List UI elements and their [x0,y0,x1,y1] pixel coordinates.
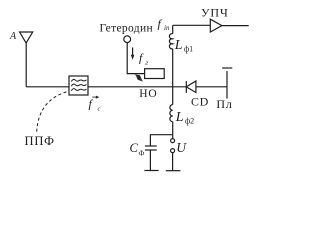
svg-text:in: in [164,24,170,32]
svg-text:U: U [176,140,187,155]
svg-text:Гетеродин: Гетеродин [100,22,154,34]
svg-text:ф1: ф1 [184,45,193,54]
svg-text:f: f [139,51,144,65]
svg-text:f: f [158,17,163,31]
svg-text:с: с [98,106,101,113]
svg-text:L: L [175,110,184,125]
svg-text:A: A [9,31,17,42]
svg-text:L: L [174,38,183,53]
svg-text:Ф: Ф [139,149,145,158]
svg-text:г: г [145,58,148,67]
svg-text:ф2: ф2 [185,117,194,126]
svg-text:НО: НО [139,88,157,100]
svg-text:C: C [130,141,139,155]
svg-text:ППФ: ППФ [25,134,55,148]
svg-text:CD: CD [191,95,209,109]
svg-text:Пл: Пл [216,97,232,111]
svg-text:УПЧ: УПЧ [201,5,229,19]
svg-text:f: f [89,97,94,111]
